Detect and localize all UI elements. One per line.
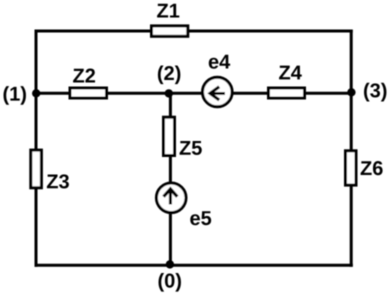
node (2) label: [158, 66, 180, 85]
node (3) label: [364, 83, 386, 102]
resistor Z2: [70, 69, 107, 98]
node (3) junction dot: [347, 88, 355, 96]
wire middle vertical branch node2 to node0: [169, 93, 172, 265]
wire middle horizontal node1 to node3: [36, 92, 351, 95]
node (0) junction dot: [166, 260, 174, 268]
wire bottom side: [35, 264, 353, 267]
node (2) junction dot: [165, 89, 173, 97]
resistor Z5: [164, 117, 202, 155]
resistor Z1: [152, 4, 188, 37]
node (0) label: [159, 273, 181, 292]
resistor Z4: [269, 66, 305, 98]
wire right side: [350, 30, 353, 267]
wire top side: [35, 30, 353, 33]
resistor Z6: [346, 151, 383, 185]
source e5: [156, 183, 211, 225]
resistor Z3: [31, 150, 69, 188]
source e4: [203, 55, 233, 107]
wire left side: [35, 30, 38, 267]
node (1) label: [4, 86, 26, 105]
node (1) junction dot: [32, 89, 40, 97]
